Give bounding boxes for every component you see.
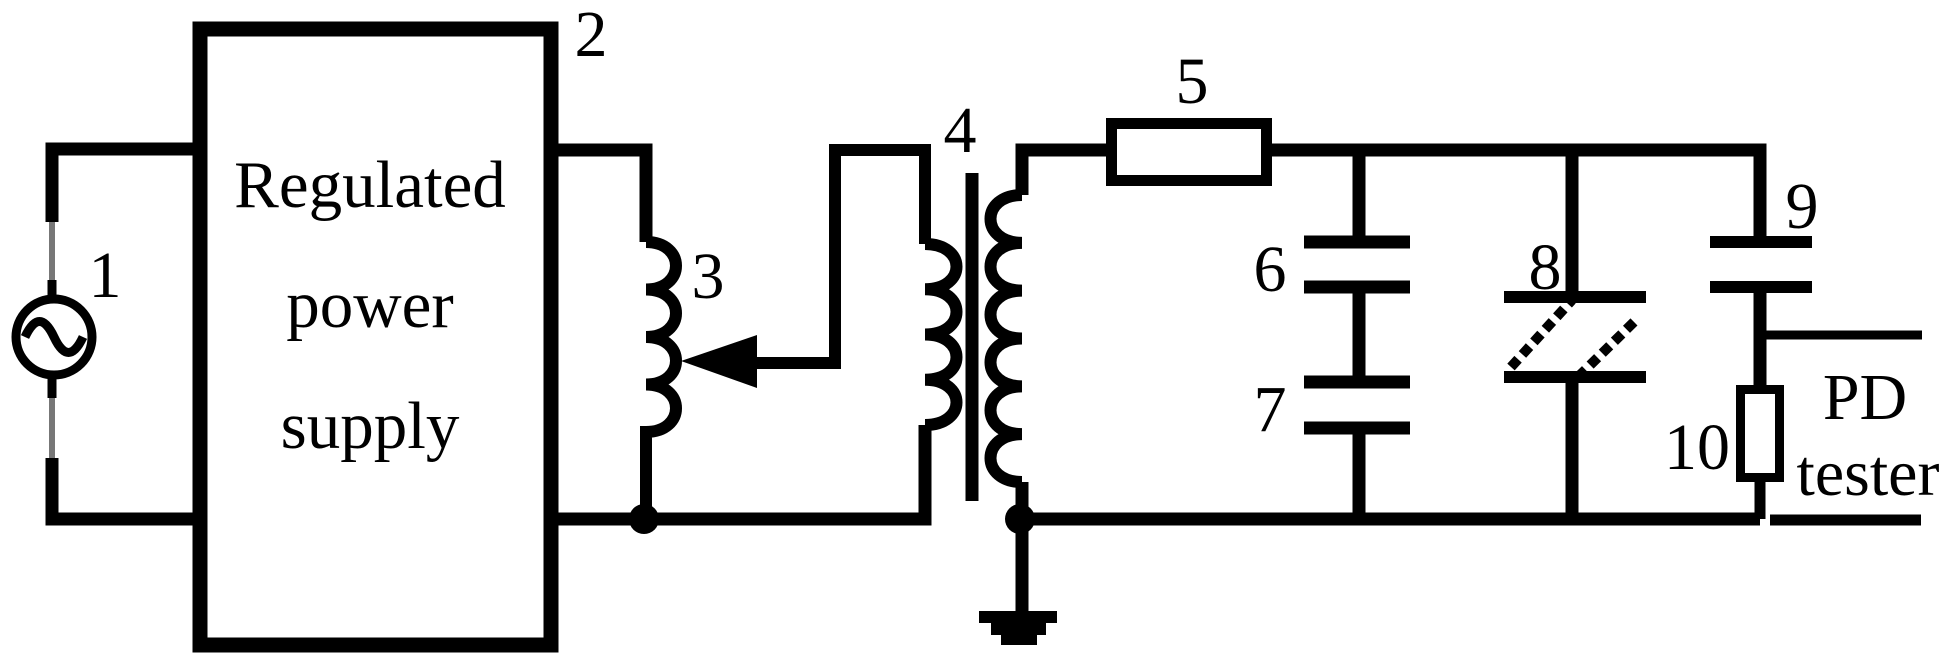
svg-text:1: 1	[89, 239, 122, 312]
svg-text:tester: tester	[1797, 437, 1940, 510]
svg-text:2: 2	[575, 0, 608, 71]
svg-text:3: 3	[692, 240, 725, 313]
svg-text:supply: supply	[281, 389, 460, 463]
svg-text:6: 6	[1254, 233, 1287, 306]
svg-text:10: 10	[1664, 411, 1730, 484]
svg-text:power: power	[286, 268, 453, 342]
svg-text:7: 7	[1254, 373, 1287, 446]
svg-text:PD: PD	[1823, 361, 1907, 434]
svg-text:Regulated: Regulated	[234, 148, 506, 222]
svg-text:5: 5	[1176, 45, 1209, 118]
svg-text:8: 8	[1529, 231, 1562, 304]
svg-text:9: 9	[1786, 170, 1819, 243]
svg-text:4: 4	[944, 94, 977, 167]
